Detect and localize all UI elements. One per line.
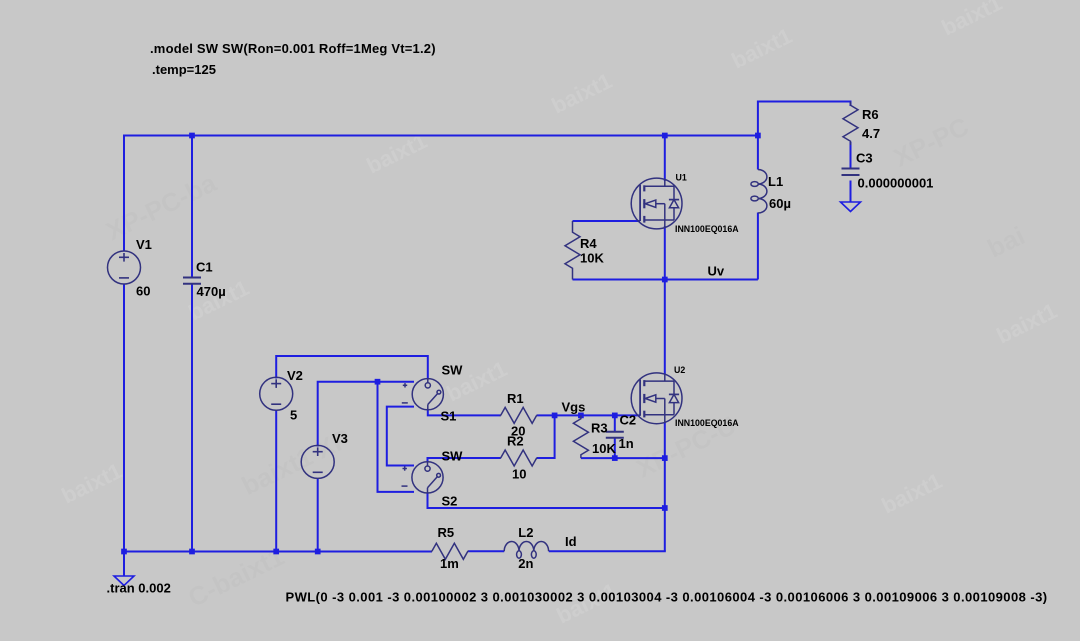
wire S2 top to R2 [428, 458, 501, 463]
wire S1 to R1 [428, 409, 501, 415]
resistor R5 [432, 543, 468, 559]
wire bottom rail right of L2 [549, 550, 666, 552]
wire V3 bottom [317, 478, 319, 552]
resistor R4 [565, 221, 580, 280]
svg-text:60µ: 60µ [769, 196, 791, 211]
wire C3 to ground [850, 181, 852, 203]
capacitor C2 [606, 431, 624, 433]
wire R6 to C3 [850, 142, 852, 169]
wire node Uv rail [573, 279, 758, 281]
svg-text:Vgs: Vgs [562, 400, 586, 415]
wire V1 top [123, 135, 125, 252]
svg-text:Id: Id [565, 534, 577, 549]
ground C3 [841, 202, 861, 212]
wire R2 up to node Vgs [537, 415, 555, 458]
wire Id segment [431, 550, 433, 552]
ground bottom-left [114, 576, 134, 586]
svg-text:1n: 1n [619, 436, 634, 451]
wire R1 to node Vgs [537, 414, 555, 416]
wire C1 bottom [191, 283, 193, 552]
svg-text:U1: U1 [676, 173, 687, 183]
mosfet U2 [631, 373, 682, 424]
junction C1 top rail [189, 133, 195, 139]
wire U2 drain [664, 280, 666, 375]
voltage source V3 [301, 445, 334, 478]
switch S1 [412, 379, 443, 410]
svg-text:.temp=125: .temp=125 [152, 62, 216, 77]
svg-text:R6: R6 [862, 107, 879, 122]
wire U2 source down [664, 422, 666, 551]
svg-text:R5: R5 [438, 525, 455, 540]
junction V3 bottom rail [315, 549, 321, 555]
wire C2 top lead [614, 415, 616, 431]
wire L1 top lead [757, 136, 759, 170]
junction R3 top [578, 413, 584, 419]
junction S2 bottom [662, 505, 668, 511]
svg-text:0.000000001: 0.000000001 [858, 176, 934, 191]
svg-text:V3: V3 [332, 431, 348, 446]
svg-text:PWL(0 -3 0.001 -3 0.00100002 3: PWL(0 -3 0.001 -3 0.00100002 3 0.0010300… [286, 589, 1048, 604]
svg-text:S1: S1 [441, 409, 457, 424]
junction node Vgs [552, 413, 558, 419]
voltage source V2 [260, 377, 293, 410]
wire bottom rail R5-L2 segment [468, 550, 505, 552]
svg-text:2n: 2n [518, 556, 533, 571]
svg-text:SW: SW [442, 363, 464, 378]
wire C1 top [191, 136, 193, 278]
wire V2 bottom [275, 410, 277, 552]
wire R4 to U1 gate [573, 220, 641, 222]
svg-text:.tran 0.002: .tran 0.002 [107, 581, 171, 596]
svg-text:R2: R2 [507, 434, 524, 449]
capacitor C1 [183, 277, 201, 279]
svg-text:Uv: Uv [708, 264, 725, 279]
mosfet U1 [631, 178, 682, 229]
svg-text:INN100EQ016A: INN100EQ016A [675, 224, 739, 234]
svg-text:10K: 10K [592, 441, 616, 456]
svg-text:L1: L1 [768, 174, 783, 189]
svg-text:10: 10 [512, 467, 526, 482]
junction source rail [662, 455, 668, 461]
junction C2 top [612, 413, 618, 419]
wire R3 C2 bottom rail [581, 457, 665, 459]
resistor R1 [501, 407, 537, 423]
svg-text:S2: S2 [442, 494, 458, 509]
svg-text:470µ: 470µ [197, 284, 226, 299]
junction Uv node [662, 277, 668, 283]
wire V2 to S1 top [276, 356, 428, 380]
svg-text:V2: V2 [287, 368, 303, 383]
capacitor C3 [842, 168, 860, 170]
junction C1 bottom rail [189, 549, 195, 555]
wire V3 plus to switches control [318, 382, 414, 447]
junction V1 bottom rail [121, 549, 127, 555]
svg-text:R3: R3 [591, 421, 608, 436]
inductor L2 [504, 542, 519, 552]
wire V1 bottom [123, 284, 125, 552]
wire ground stub bottom-left [123, 552, 125, 577]
svg-text:.model SW SW(Ron=0.001 Roff=1M: .model SW SW(Ron=0.001 Roff=1Meg Vt=1.2) [150, 41, 436, 56]
svg-text:C3: C3 [856, 151, 873, 166]
wire C2 bottom lead [614, 438, 616, 458]
svg-text:C2: C2 [620, 413, 637, 428]
voltage source V1 [108, 251, 141, 284]
svg-text:R1: R1 [507, 391, 524, 406]
svg-text:1m: 1m [440, 556, 459, 571]
wire S2 bottom to U2 source [428, 493, 665, 509]
wire S1 minus to S2 plus bracket [387, 407, 414, 466]
svg-text:10K: 10K [580, 251, 604, 266]
wire U1 source [664, 226, 666, 280]
svg-text:INN100EQ016A: INN100EQ016A [675, 418, 739, 428]
wire L1 bottom lead [757, 213, 759, 280]
svg-text:4.7: 4.7 [862, 126, 880, 141]
wire U1 drain [664, 136, 666, 182]
svg-text:SW: SW [442, 449, 464, 464]
resistor R3 [573, 415, 588, 458]
junction U1 drain [662, 133, 668, 139]
svg-text:C1: C1 [196, 260, 213, 275]
svg-text:60: 60 [136, 284, 150, 299]
switch S2 [412, 462, 443, 493]
wire bottom rail [123, 551, 432, 553]
junction C2 bottom [612, 455, 618, 461]
svg-text:U2: U2 [674, 365, 685, 375]
wire R6 branch corner [758, 102, 851, 137]
junction V2 bottom rail [273, 549, 279, 555]
svg-text:R4: R4 [580, 236, 597, 251]
resistor R6 [843, 102, 858, 146]
svg-text:5: 5 [290, 408, 297, 423]
wire node Vgs to U2 gate [555, 414, 641, 416]
svg-text:V1: V1 [136, 237, 152, 252]
wire top rail [124, 135, 758, 137]
wire control junction down to S2 minus [378, 382, 415, 492]
junction V3 control [375, 379, 381, 385]
resistor R2 [501, 450, 537, 466]
junction L1/R6 branch [755, 133, 761, 139]
inductor L1 [758, 170, 767, 185]
svg-text:L2: L2 [518, 525, 533, 540]
